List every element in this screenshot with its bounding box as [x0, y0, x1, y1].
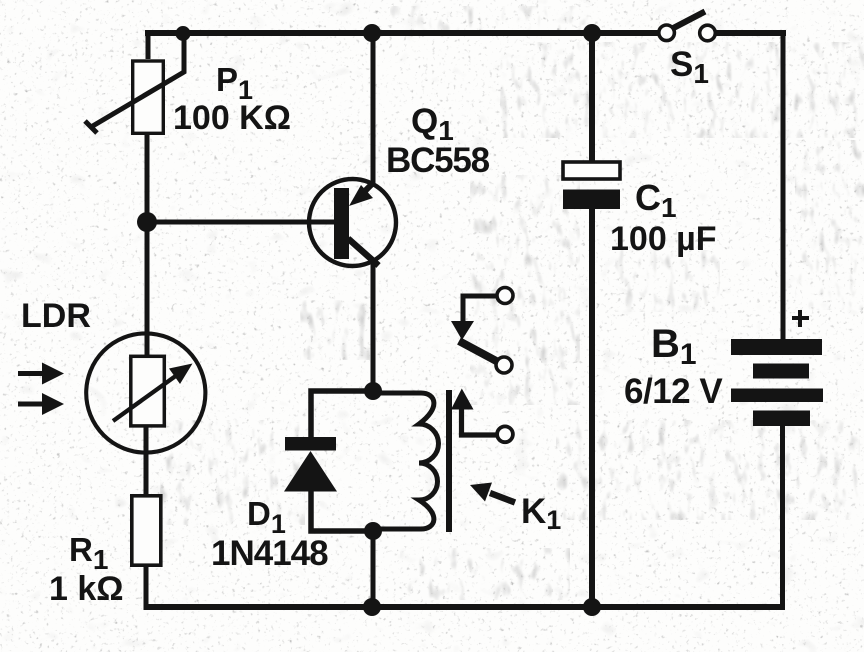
- relay lower terminal: [496, 357, 512, 373]
- wire: bottom rail (ground return): [144, 604, 785, 610]
- LDR light arrow 1: [18, 371, 44, 376]
- B1 plate 3: [731, 389, 823, 403]
- LDR diagonal arrow: [113, 375, 177, 421]
- relay armature arrow (moving contact): [451, 389, 513, 443]
- C1 top plate: [563, 162, 620, 179]
- wire: D1 anode-top link: [311, 391, 375, 440]
- B1 plate 1 (+): [731, 339, 822, 355]
- LDR resistor body: [131, 356, 165, 426]
- svg-text:100 KΩ: 100 KΩ: [173, 99, 291, 137]
- S1 lever: [672, 12, 706, 30]
- battery + sign: [792, 310, 809, 327]
- wire: R1 bottom lead: [144, 566, 149, 610]
- C1 bottom plate: [563, 190, 620, 210]
- node: C1 junction on top rail: [583, 24, 601, 42]
- LDR (light dependent resistor): [18, 333, 205, 452]
- wire: D1 cathode-bottom link: [311, 490, 375, 531]
- transistor Q1 (BC558 PNP): [309, 179, 396, 266]
- svg-text:6/12 V: 6/12 V: [624, 372, 723, 411]
- relay common terminal: [497, 426, 513, 442]
- switch S1: [659, 12, 716, 41]
- diode D1 (1N4148): [284, 437, 337, 492]
- svg-text:100 µF: 100 µF: [610, 220, 717, 258]
- node: voltage divider / base junction: [137, 212, 157, 232]
- B1 plate 2: [753, 364, 809, 379]
- wire: left rail LDR to R1: [144, 427, 149, 495]
- battery B1: [731, 339, 823, 426]
- relay upper terminal: [497, 288, 513, 304]
- potentiometer P1 body: [85, 36, 184, 133]
- D1 triangle: [284, 451, 337, 492]
- wire: C1 top lead: [589, 30, 595, 163]
- LDR light arrow 2: [18, 402, 44, 407]
- Q1 collector line: [348, 239, 379, 266]
- capacitor C1 (electrolytic): [563, 162, 620, 209]
- node: P1 wiper junction on top rail: [176, 26, 191, 41]
- wire: Q1 emitter lead from top rail: [371, 30, 376, 184]
- svg-text:1N4148: 1N4148: [211, 534, 328, 573]
- wire: P1 top lead: [146, 30, 151, 59]
- wire: right rail lower (battery - down to bottom corner): [780, 425, 785, 610]
- wire: base wire from divider node to Q1: [147, 220, 337, 225]
- wire: relay bottom to ground rail: [371, 531, 376, 610]
- svg-text:LDR: LDR: [21, 297, 91, 335]
- node: Q1 emitter junction on top rail: [363, 24, 381, 42]
- node: collector-relay-diode top junction: [364, 382, 382, 400]
- relay K1 coil: [377, 393, 439, 529]
- K1 pointer arrow: [470, 483, 515, 503]
- relay contact lever: [459, 341, 500, 363]
- Q1 base bar: [334, 188, 349, 259]
- node: relay-diode bottom junction: [364, 522, 382, 540]
- wire: left rail P1 to LDR: [145, 134, 150, 355]
- relay K1 core bar: [446, 390, 452, 532]
- P1 wiper end tick: [85, 121, 97, 133]
- wire: top rail left (V+ rail from left corner to switch): [145, 30, 660, 36]
- node: relay branch on bottom rail: [363, 598, 381, 616]
- node: C1 branch on bottom rail: [583, 598, 601, 616]
- wire: top rail right (switch to right corner): [714, 30, 786, 36]
- Q1 emitter with arrow into base (PNP): [364, 182, 374, 192]
- relay upper contact (NC): [451, 288, 513, 374]
- P1 wiper arm: [91, 36, 184, 127]
- wire: Q1 collector lead: [371, 262, 376, 392]
- svg-text:BC558: BC558: [386, 141, 490, 180]
- wire: C1 bottom lead: [589, 207, 595, 610]
- wire: right rail upper (corner down to battery +): [781, 30, 786, 341]
- resistor R1: [132, 496, 161, 565]
- svg-text:1 kΩ: 1 kΩ: [49, 570, 124, 608]
- D1 cathode bar: [285, 437, 336, 451]
- B1 plate 4 (-): [753, 411, 810, 427]
